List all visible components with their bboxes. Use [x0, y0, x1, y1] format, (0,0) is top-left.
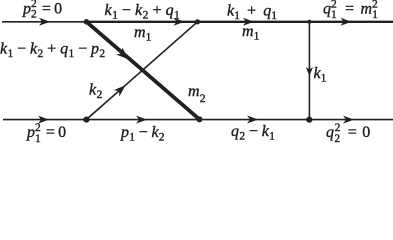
svg-text:q2 − k1: q2 − k1 [231, 123, 275, 143]
svg-text:p1 − k2: p1 − k2 [120, 124, 165, 144]
svg-text:m1: m1 [134, 24, 152, 44]
svg-text:p12 = 0: p12 = 0 [26, 122, 66, 145]
svg-text:m2: m2 [188, 83, 206, 105]
svg-text:k1 + q1: k1 + q1 [227, 3, 277, 23]
svg-text:m1: m1 [242, 23, 260, 43]
svg-text:p22 = 0: p22 = 0 [22, 0, 62, 21]
svg-text:k1 − k2 + q1 − p2: k1 − k2 + q1 − p2 [0, 41, 106, 61]
svg-text:k1: k1 [314, 65, 327, 85]
svg-text:k1 − k2 + q1: k1 − k2 + q1 [105, 2, 181, 22]
svg-text:k2: k2 [89, 82, 103, 102]
svg-text:q22 = 0: q22 = 0 [326, 122, 371, 145]
svg-text:q12 = m12: q12 = m12 [323, 0, 378, 21]
